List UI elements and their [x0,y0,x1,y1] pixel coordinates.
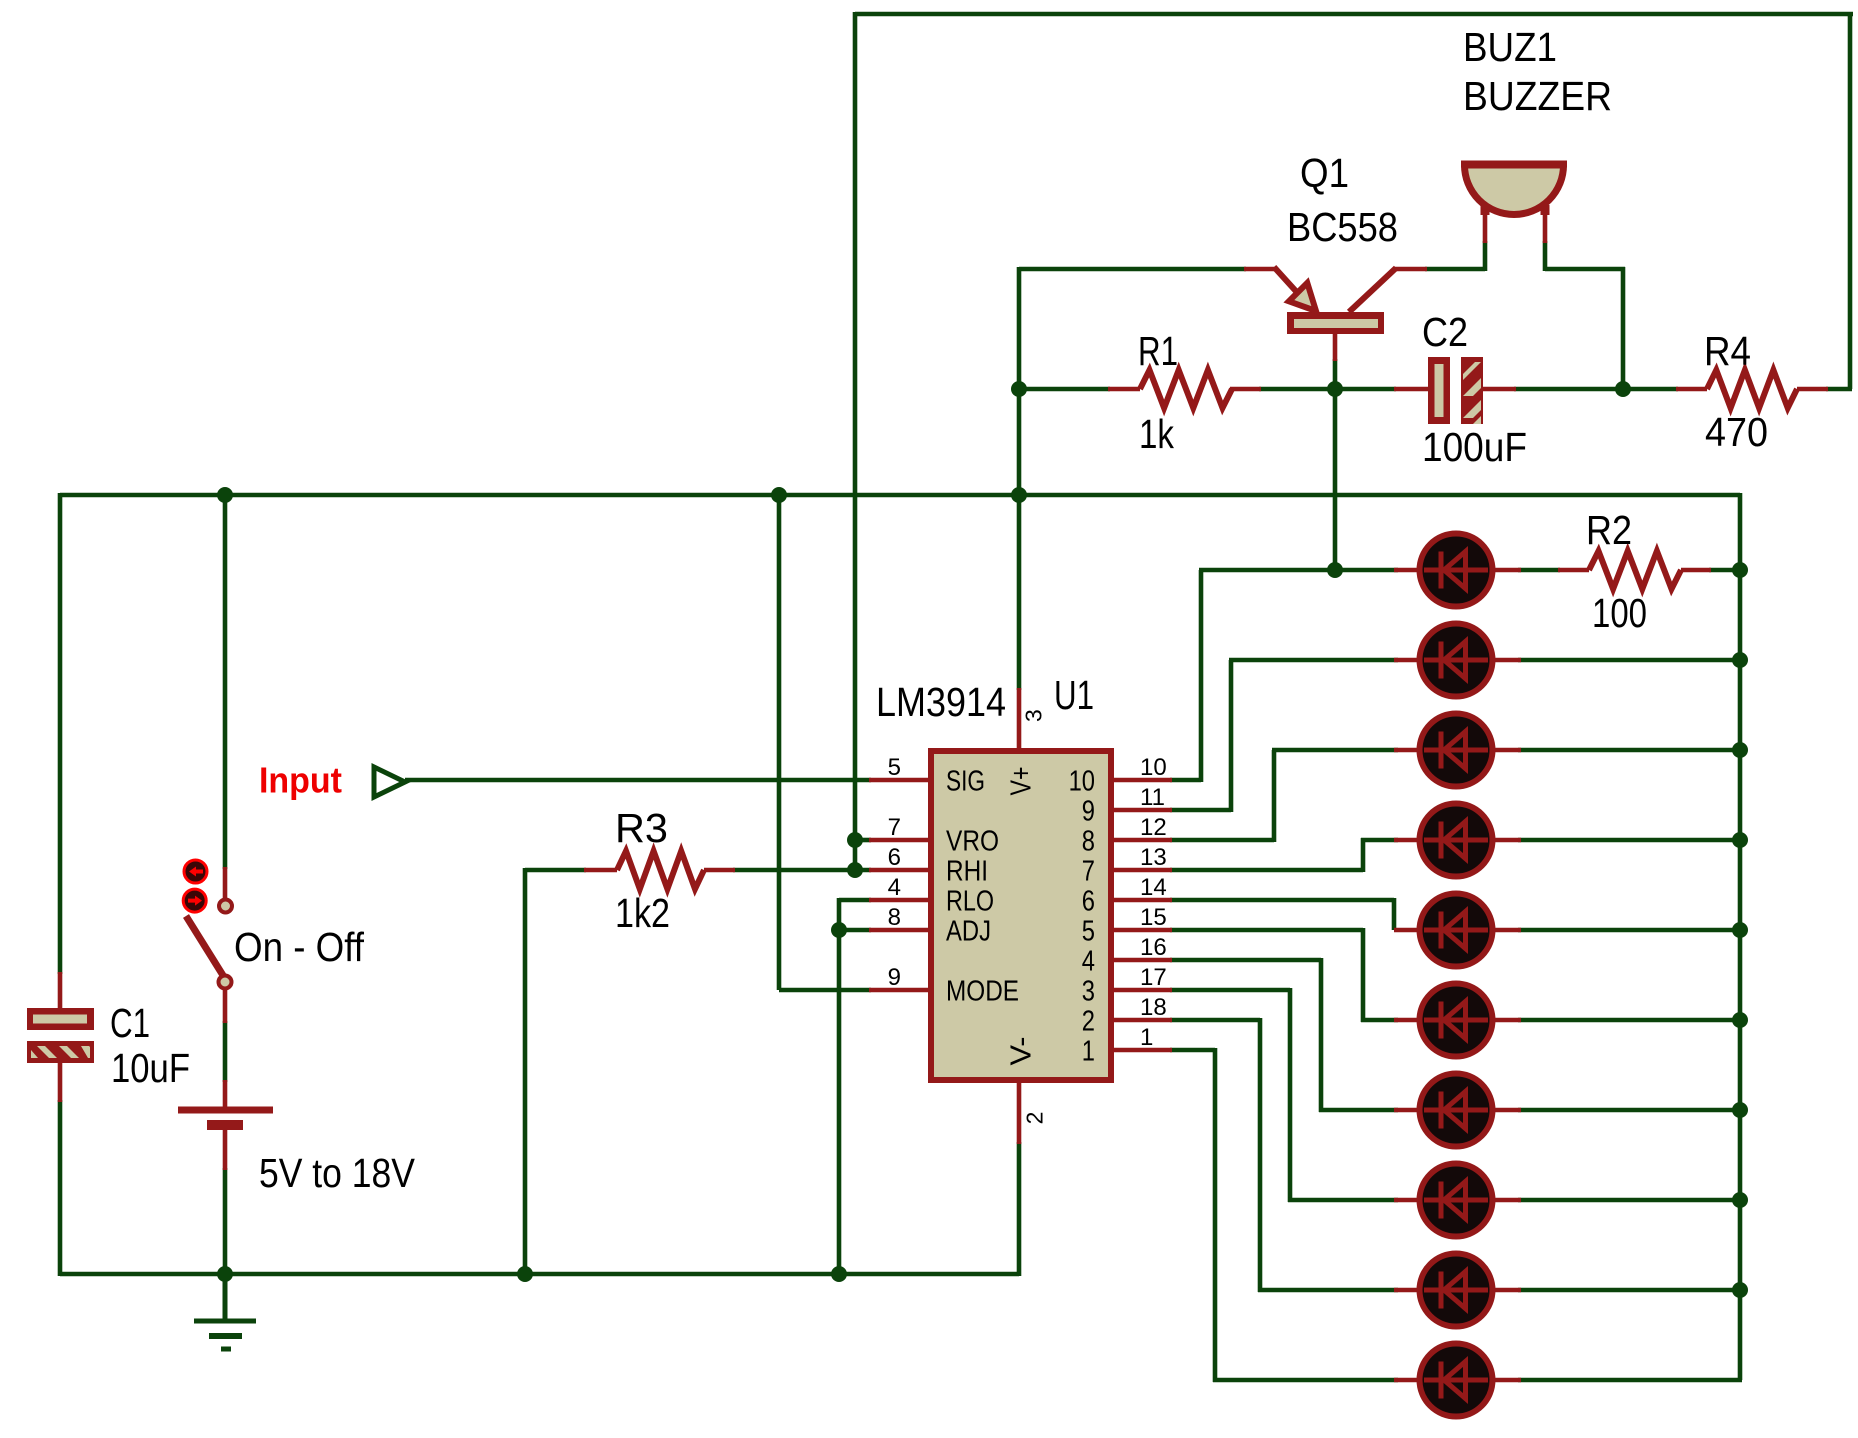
node supply-MODE junction [771,487,787,503]
LED D2 [1420,624,1493,697]
node base-R1-C2 junction [1327,381,1343,397]
svg-text:Input: Input [259,759,342,800]
svg-text:4: 4 [888,874,901,901]
LED D3 [1420,714,1493,787]
wire pin6 vertical to LED5 [1392,898,1397,930]
pin D7 anode lead [1394,1108,1424,1113]
resistor R4 [1707,370,1797,408]
svg-text:V+: V+ [1006,767,1038,796]
pin switch bottom lead [223,988,228,1023]
svg-text:2: 2 [1082,1006,1095,1038]
svg-text:5: 5 [1082,916,1095,948]
svg-text:LM3914: LM3914 [876,679,1006,725]
svg-text:10: 10 [1140,754,1167,781]
wire LED10 row [1213,1378,1398,1383]
svg-text:MODE: MODE [946,976,1019,1008]
svg-text:10: 10 [1069,766,1095,798]
pin switch top lead [223,867,228,900]
pin Q1 collector lead [1394,267,1427,272]
pin Q1 emitter lead [1244,267,1276,272]
pin C2 right lead [1483,387,1516,392]
switch toggle actuator down [183,889,206,912]
svg-text:ADJ: ADJ [946,916,991,948]
pin R1 right lead [1230,387,1261,392]
node rail-LED1 junction [1732,562,1748,578]
wire buzzer left leg lower [1483,241,1488,271]
wire main V+ rail [60,493,1740,498]
wire left rail upper segment [58,493,63,974]
pin U1 right L3 stub [1112,988,1172,993]
wire pin9 vertical to LED2 [1229,660,1234,812]
svg-text:1: 1 [1082,1036,1095,1068]
svg-text:5: 5 [888,754,901,781]
svg-text:7: 7 [1082,856,1095,888]
svg-text:SIG: SIG [946,766,985,798]
pin D3 anode lead [1394,748,1424,753]
wire pin6 horizontal [1170,898,1394,903]
wire pin7 horizontal [1170,868,1363,873]
wire C2 right to R4 [1514,387,1678,392]
wire Q1 base vertical [1333,359,1338,570]
svg-text:17: 17 [1140,964,1167,991]
pin D8 cathode lead [1488,1198,1521,1203]
pin battery top lead [223,1080,228,1110]
pin U1 right L8 stub [1112,838,1172,843]
svg-text:R2: R2 [1586,507,1632,553]
wire LED2 row [1229,658,1398,663]
wire LED7 cathode to rail [1518,1108,1742,1113]
node VRO junction [847,832,863,848]
pin D5 cathode lead [1488,928,1521,933]
LED D10 [1420,1344,1493,1417]
pin U1 RHI stub [869,868,930,873]
svg-text:8: 8 [888,904,901,931]
pin D1 cathode lead [1488,568,1521,573]
node base-LED1 junction [1327,562,1343,578]
svg-text:R4: R4 [1704,328,1751,374]
LED D7 [1420,1074,1493,1147]
pin U1 right L10 stub [1112,778,1172,783]
svg-text:On - Off: On - Off [234,924,365,970]
pin D9 anode lead [1394,1288,1424,1293]
wire R4 right lead wire [1826,387,1852,392]
wire VRO row [855,838,871,843]
pin U1 V- pin2 [1017,1081,1022,1144]
LED D9 [1420,1254,1493,1327]
svg-text:V-: V- [1006,1037,1038,1066]
wire right edge vertical to R4 [1848,12,1853,389]
svg-text:1: 1 [1140,1024,1153,1051]
svg-text:9: 9 [888,964,901,991]
wire RLO ADJ ground vertical [837,898,842,1276]
wire top rail buzzer loop [855,12,1853,17]
wire MODE row [779,988,871,993]
svg-text:2: 2 [1021,1112,1047,1125]
wire R1 right to base junction [1259,387,1396,392]
wire LED3 row [1272,748,1398,753]
pin R2 right lead [1681,568,1711,573]
svg-text:BC558: BC558 [1287,204,1398,250]
pin C1 top lead [58,972,63,1010]
svg-text:C1: C1 [110,1000,150,1046]
wire left rail lower segment [58,1100,63,1276]
svg-text:3: 3 [1082,976,1095,1008]
wire pin8 vertical to LED3 [1272,750,1277,842]
wire pin5 horizontal [1170,928,1363,933]
pin U1 right L9 stub [1112,808,1172,813]
pin C1 bottom lead [58,1062,63,1102]
node Input terminal [374,767,405,797]
svg-text:5V to 18V: 5V to 18V [259,1150,416,1196]
wire bottom ground rail [60,1272,1019,1277]
pin D9 cathode lead [1488,1288,1521,1293]
pin U1 right L7 stub [1112,868,1172,873]
LED D8 [1420,1164,1493,1237]
wire V- vertical to ground rail [1017,1142,1022,1276]
node R1-Vplus junction [1011,381,1027,397]
svg-text:7: 7 [888,814,901,841]
wire LED9 row [1258,1288,1398,1293]
wire LED8 cathode to rail [1518,1198,1742,1203]
wire LED common rail vertical [1738,493,1743,1380]
node supply-switch junction [217,487,233,503]
svg-text:6: 6 [888,844,901,871]
switch SW On-Off [186,900,232,989]
pin U1 VRO stub [869,838,930,843]
svg-text:100uF: 100uF [1422,424,1527,470]
wire LED1 row [1199,568,1398,573]
wire ADJ row [839,928,871,933]
pin U1 right L2 stub [1112,1018,1172,1023]
wire buzzer right leg row [1545,267,1625,272]
capacitor C1 [27,1008,94,1063]
svg-text:15: 15 [1140,904,1167,931]
wire reference vertical x=855 [853,12,858,870]
pin C2 left lead [1394,387,1428,392]
wire pin10 horizontal [1170,778,1201,783]
pin D3 cathode lead [1488,748,1521,753]
LED D1 [1420,534,1493,607]
pin D1 anode lead [1394,568,1424,573]
pin stub buzzer right leg [1543,208,1548,243]
wire pin1 vertical to LED10 [1213,1048,1218,1382]
wire pin5 vertical to LED6 [1361,928,1366,1022]
svg-text:6: 6 [1082,886,1095,918]
wire LED10 cathode to rail [1518,1378,1742,1383]
wire R3 left corner [525,868,586,873]
wire switch to battery [223,1021,228,1082]
wire LED4 row [1361,838,1398,843]
pin D4 cathode lead [1488,838,1521,843]
wire LED9 cathode to rail [1518,1288,1742,1293]
node rail-LED3 junction [1732,742,1748,758]
pin U1 RLO stub [869,898,930,903]
wire pin9 horizontal [1170,808,1231,813]
svg-text:13: 13 [1140,844,1167,871]
node rail-LED6 junction [1732,1012,1748,1028]
switch toggle actuator up [184,860,207,883]
svg-text:4: 4 [1082,946,1095,978]
pin D5 anode lead [1394,928,1424,933]
svg-text:R1: R1 [1138,328,1178,374]
wire LED6 cathode to rail [1518,1018,1742,1023]
pin D10 cathode lead [1488,1378,1521,1383]
wire pin8 horizontal [1170,838,1274,843]
svg-text:8: 8 [1082,826,1095,858]
wire pin3 horizontal [1170,988,1290,993]
capacitor C2 [1428,357,1483,424]
svg-text:9: 9 [1082,796,1095,828]
svg-text:3: 3 [1020,709,1046,722]
svg-text:470: 470 [1705,409,1768,455]
svg-text:1k: 1k [1139,411,1174,457]
wire pin3 vertical to LED8 [1288,988,1293,1202]
resistor R1 [1140,370,1232,408]
pin D8 anode lead [1394,1198,1424,1203]
wire LED4 cathode to rail [1518,838,1742,843]
wire pin10 vertical to LED1 [1199,570,1204,782]
pin battery bottom lead [223,1125,228,1170]
svg-text:100: 100 [1592,590,1647,636]
svg-text:1k2: 1k2 [615,890,670,936]
node ground-battery junction [217,1266,233,1282]
pin U1 V+ pin3 [1017,688,1022,750]
node rail-LED5 junction [1732,922,1748,938]
ground [194,1274,256,1349]
wire LED5 cathode to rail [1518,928,1742,933]
pin R4 left lead [1676,387,1707,392]
wire MODE vertical [777,493,782,990]
svg-text:10uF: 10uF [111,1045,190,1091]
pin D6 anode lead [1394,1018,1424,1023]
svg-text:Q1: Q1 [1300,150,1349,196]
pin U1 ADJ stub [869,928,930,933]
transistor Q1 [1274,267,1396,334]
wire input signal row [405,778,871,783]
resistor R2 [1589,551,1681,589]
node C2-R4-buzzer junction [1615,381,1631,397]
node ground-R3 junction [517,1266,533,1282]
svg-text:C2: C2 [1422,309,1468,355]
op-amp U1 LM3914 body [931,751,1111,1080]
svg-text:BUZ1: BUZ1 [1463,24,1557,70]
wire pin4 horizontal [1170,958,1321,963]
wire R3 ground vertical [523,868,528,1276]
svg-text:12: 12 [1140,814,1167,841]
pin D7 cathode lead [1488,1108,1521,1113]
pin R3 left lead [584,868,617,873]
buzzer BUZ1 [1461,164,1567,215]
node RLO-ADJ junction [831,922,847,938]
pin R4 right lead [1797,387,1828,392]
wire LED8 row [1288,1198,1398,1203]
svg-text:U1: U1 [1054,672,1094,718]
pin R1 left lead [1108,387,1140,392]
pin U1 right L5 stub [1112,928,1172,933]
wire RHI row R3 right [733,868,871,873]
wire pin2 horizontal [1170,1018,1260,1023]
pin D6 cathode lead [1488,1018,1521,1023]
battery 5V to 18V [178,1110,273,1125]
wire buzzer right leg lower [1543,241,1548,271]
wire V+ vertical upper [1017,267,1022,690]
pin R2 left lead [1558,568,1589,573]
svg-text:11: 11 [1140,784,1165,811]
svg-text:R3: R3 [615,805,668,851]
node rail-LED8 junction [1732,1192,1748,1208]
wire LED3 cathode to rail [1518,748,1742,753]
wire LED6 row [1361,1018,1398,1023]
wire R2 to rail [1709,568,1740,573]
wire switch branch upper [223,493,228,869]
wire battery to rail [223,1168,228,1276]
wire LED1 cathode to R2 [1518,568,1560,573]
pin Q1 base lead [1333,332,1338,361]
svg-text:16: 16 [1140,934,1167,961]
wire Q1 collector to buzzer [1425,267,1485,272]
wire R1 left lead wire [1019,387,1110,392]
node supply-Vplus junction [1011,487,1027,503]
pin stub buzzer left leg [1483,208,1488,243]
wire Q1 emitter row [1019,267,1246,272]
node rail-LED4 junction [1732,832,1748,848]
pin D2 anode lead [1394,658,1424,663]
wire pin2 vertical to LED9 [1258,1018,1263,1292]
node RHI junction [847,862,863,878]
wire pin4 vertical to LED7 [1319,958,1324,1112]
node rail-LED9 junction [1732,1282,1748,1298]
wire pin7 vertical to LED4 [1361,838,1366,872]
resistor R3 [617,851,704,889]
wire LED7 row [1319,1108,1398,1113]
svg-text:VRO: VRO [946,826,999,858]
wire C2 R4 junction vertical [1621,267,1626,389]
LED D6 [1420,984,1493,1057]
wire RLO row [839,898,871,903]
node rail-LED7 junction [1732,1102,1748,1118]
svg-text:RLO: RLO [946,886,994,918]
pin D2 cathode lead [1488,658,1521,663]
pin D4 anode lead [1394,838,1424,843]
svg-text:18: 18 [1140,994,1167,1021]
svg-text:RHI: RHI [946,856,988,888]
pin R3 right lead [704,868,735,873]
LED D4 [1420,804,1493,877]
pin U1 SIG stub [869,778,930,783]
svg-text:14: 14 [1140,874,1167,901]
wire LED2 cathode to rail [1518,658,1742,663]
LED D5 [1420,894,1493,967]
pin D10 anode lead [1394,1378,1424,1383]
node rail-LED2 junction [1732,652,1748,668]
pin U1 right L6 stub [1112,898,1172,903]
pin U1 right L1 stub [1112,1048,1172,1053]
wire pin1 horizontal [1170,1048,1215,1053]
svg-text:BUZZER: BUZZER [1463,73,1612,119]
pin U1 MODE stub [869,988,930,993]
node ground-ADJ junction [831,1266,847,1282]
pin U1 right L4 stub [1112,958,1172,963]
